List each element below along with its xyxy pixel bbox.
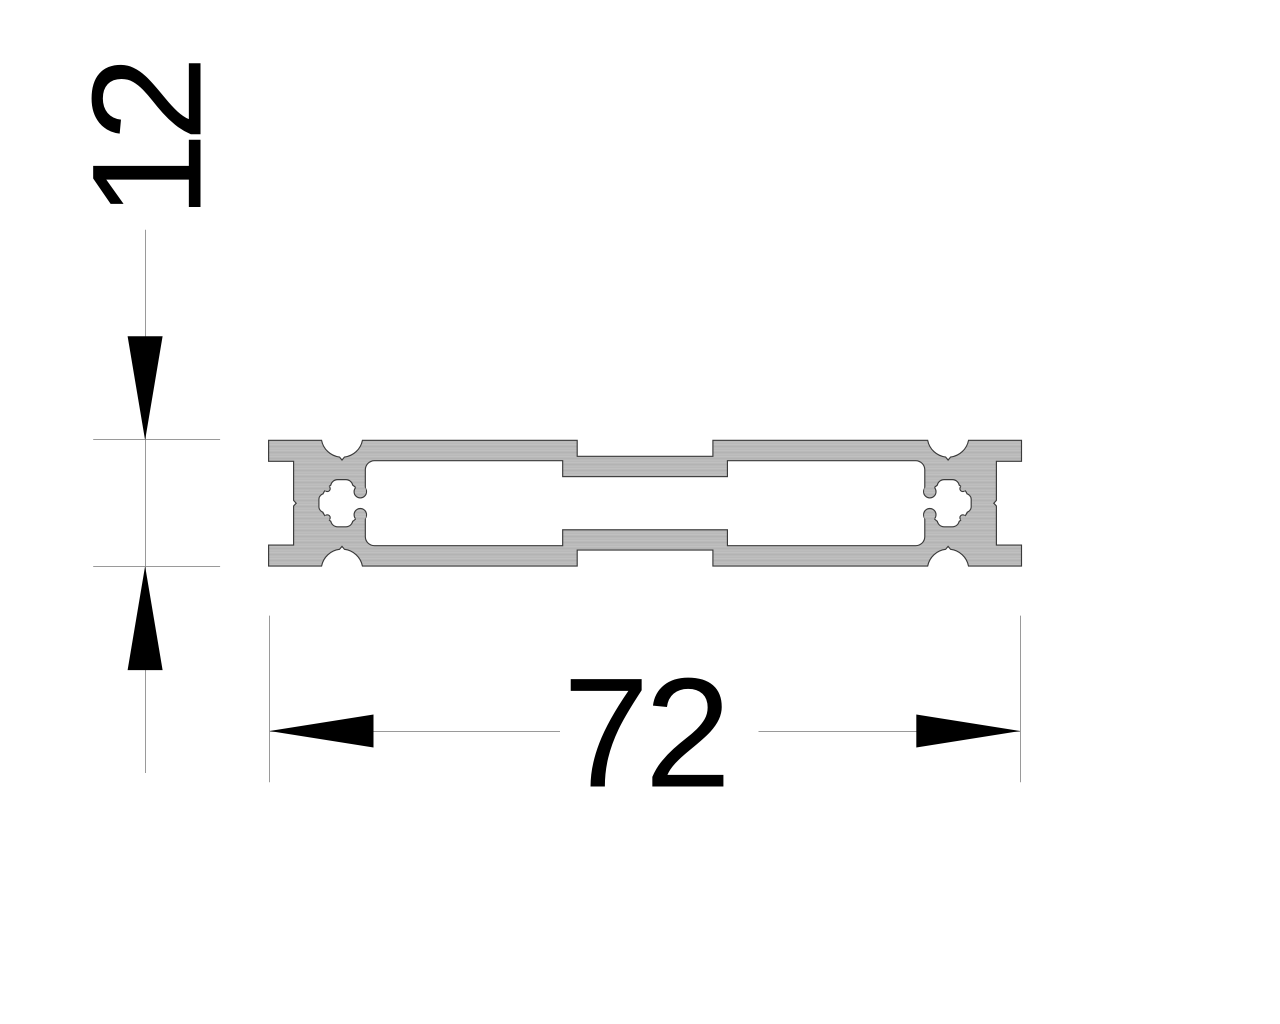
svg-text:12: 12 [61, 63, 235, 219]
svg-text:72: 72 [563, 647, 727, 821]
